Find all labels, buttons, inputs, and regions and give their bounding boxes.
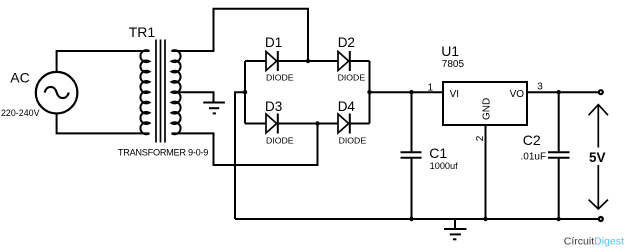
wire U1 VO to output terminal [527,91,601,93]
svg-text:2: 2 [475,135,486,141]
output terminal positive [599,90,603,94]
transformer TR1 primary winding [140,50,149,134]
capacitor C1 [401,92,422,219]
junction C2 top [557,90,561,94]
svg-text:5V: 5V [589,150,606,165]
junction node AC1 (D1-D2) [306,59,310,63]
svg-text:DIODE: DIODE [339,136,367,146]
diode D2 [338,51,350,71]
svg-text:CírcuitDigest: CírcuitDigest [564,236,624,248]
junction C1 bottom [409,217,413,221]
junction C1 top [409,90,413,94]
AC source V1 [36,72,78,114]
svg-text:D1: D1 [265,35,282,50]
regulator U1 body [443,82,527,125]
svg-text:DIODE: DIODE [266,72,294,82]
diode D3 [266,114,278,134]
svg-text:C2: C2 [523,132,541,148]
svg-text:GND: GND [482,98,493,120]
wire TR1 secondary top to bridge node AC1 [172,9,309,61]
junction node AC2 (D3-D4) [315,121,319,125]
ground (center tap) [203,103,225,114]
junction node negative (left column) [243,90,247,94]
transformer TR1 secondary winding [172,50,181,134]
diode D1 [266,51,278,71]
svg-text:VI: VI [450,89,459,100]
svg-text:D4: D4 [338,99,356,114]
wire bridge negative node to bottom rail [235,92,245,219]
wire TR1 center tap [172,92,214,102]
svg-text:D3: D3 [265,99,282,114]
svg-text:3: 3 [537,82,543,93]
diode D4 [338,114,350,134]
wire bridge top row (D1 D2) [245,60,370,62]
bottom ground rail [235,218,601,220]
svg-text:1000uf: 1000uf [430,161,459,171]
svg-text:TR1: TR1 [129,24,156,40]
capacitor C2 [548,92,570,219]
transformer TR1 core [156,40,165,143]
output terminal negative [599,217,603,221]
5V output arrow [589,105,608,209]
svg-text:C1: C1 [429,145,447,161]
wire TR1 primary bottom to AC bottom [57,114,150,134]
wire TR1 secondary bottom to bridge node AC2 [172,124,318,166]
wire bridge right column [369,61,371,124]
wire bridge left column [244,61,246,124]
svg-text:7805: 7805 [442,59,465,70]
wire rectifier output to U1 VI [370,91,444,93]
junction U1 GND [483,217,487,221]
svg-text:220-240V: 220-240V [1,108,40,118]
svg-text:VO: VO [510,89,525,100]
ground (output rail) [444,219,467,239]
svg-text:D2: D2 [338,35,355,50]
svg-text:DIODE: DIODE [338,72,366,82]
wire U1 GND pin to rail [485,125,487,219]
junction node positive (right column) [367,90,371,94]
svg-text:TRANSFORMER 9-0-9: TRANSFORMER 9-0-9 [118,147,208,157]
svg-text:DIODE: DIODE [266,136,294,146]
wire AC top to TR1 primary top [57,51,150,72]
junction C2 bottom [557,217,561,221]
svg-text:AC: AC [10,70,29,86]
svg-text:.01uF: .01uF [521,152,547,163]
svg-text:1: 1 [428,83,434,94]
wire bridge bottom row (D3 D4) [245,123,370,125]
svg-text:U1: U1 [441,43,459,59]
